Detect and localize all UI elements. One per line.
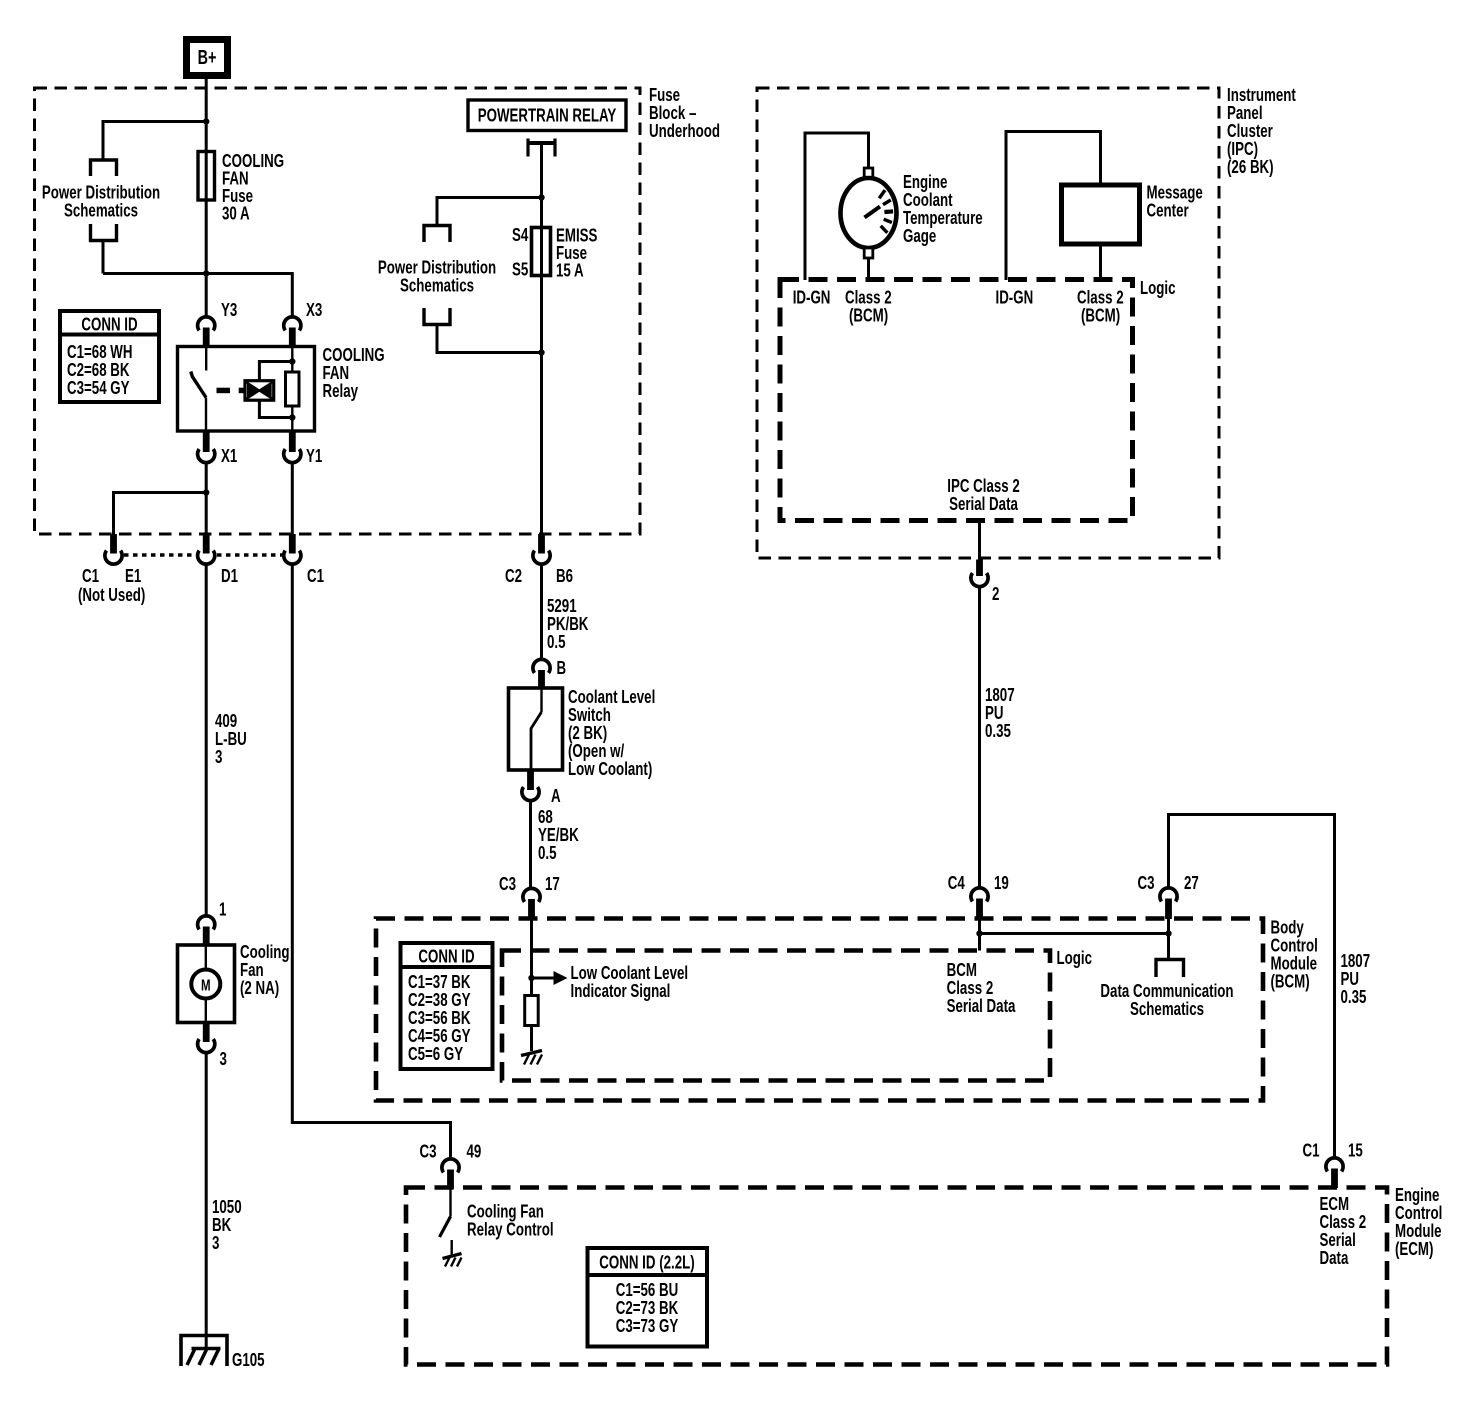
svg-text:15 A: 15 A [556, 260, 584, 281]
body control module enclosure [376, 919, 1263, 1101]
connector C1 15 [1303, 1140, 1363, 1188]
svg-text:A: A [551, 786, 561, 807]
wire coil top tap [259, 358, 295, 381]
connector D1 [198, 534, 238, 587]
gauge terminal top [864, 168, 873, 178]
connector A [522, 770, 561, 807]
EMISS fuse labels [512, 225, 598, 281]
cooling fan fuse label [222, 151, 284, 224]
wire power dist (right) to bus [437, 325, 545, 356]
svg-text:(BCM): (BCM) [1081, 305, 1120, 326]
gauge needle and ticks [865, 190, 894, 233]
wire coil bottom tap [259, 400, 295, 421]
connector 2 [971, 560, 1000, 605]
svg-text:B+: B+ [198, 46, 217, 69]
power distribution schematics reference (left) [42, 160, 160, 241]
wire low coolant signal [528, 919, 534, 996]
wire message center feed [1006, 132, 1101, 281]
IPC logic box [780, 280, 1133, 521]
svg-text:G105: G105 [232, 1350, 265, 1371]
wire 1807 PU from IPC [978, 587, 981, 888]
svg-text:Schematics: Schematics [1130, 999, 1204, 1020]
cooling fan relay control driver [440, 1189, 452, 1256]
wire B+ down to fuse [205, 79, 208, 152]
wire label 5291 PK/BK 0.5 [547, 596, 589, 653]
connector Y1 [284, 431, 323, 467]
wire gauge feed [805, 133, 869, 280]
svg-text:Logic: Logic [1140, 278, 1176, 299]
svg-text:(Not Used): (Not Used) [78, 585, 145, 606]
wire message center down [1099, 244, 1102, 280]
svg-text:C4: C4 [948, 873, 965, 894]
svg-text:C2: C2 [505, 566, 522, 587]
BCM class 2 serial data bus wire [980, 932, 1169, 935]
svg-text:(ECM): (ECM) [1395, 1239, 1433, 1260]
connector Y3 [198, 300, 238, 347]
EMISS fuse [532, 228, 551, 276]
svg-text:CONN ID: CONN ID [418, 946, 474, 967]
connector joint dotted line [124, 553, 282, 556]
svg-text:C3=73 GY: C3=73 GY [616, 1316, 679, 1337]
logic label (BCM) [1057, 948, 1093, 969]
ECM class 2 serial data label [1320, 1194, 1367, 1269]
svg-text:Gage: Gage [903, 226, 936, 247]
BCM label [1271, 917, 1318, 992]
logic label (IPC) [1140, 278, 1176, 299]
svg-text:CONN ID: CONN ID [81, 314, 137, 335]
message center box [1062, 185, 1140, 244]
svg-text:0.35: 0.35 [1341, 987, 1367, 1008]
coolant level switch label [568, 687, 655, 780]
cooling fan label [240, 942, 290, 999]
fuse block underhood enclosure [35, 88, 641, 534]
node ID-GN (gauge) [793, 287, 831, 308]
powertrain relay box [468, 100, 626, 131]
node Class 2 BCM (message center) [1077, 287, 1124, 326]
connector C3 17 [499, 874, 560, 919]
connector C2 B6 [505, 534, 573, 587]
fuse block label [649, 85, 720, 142]
connector C3 49 [420, 1141, 482, 1189]
BCM logic box [502, 951, 1050, 1081]
IPC class 2 serial data net label [947, 476, 1020, 515]
svg-text:Low Coolant): Low Coolant) [568, 759, 652, 780]
wire label 68 YE/BK 0.5 [538, 807, 579, 864]
connector X1 [198, 431, 238, 467]
svg-text:Y1: Y1 [306, 446, 322, 467]
svg-text:1: 1 [219, 899, 226, 920]
svg-text:X1: X1 [221, 446, 237, 467]
connector 3 [198, 1023, 227, 1070]
wire C3 27 down to data comm [1165, 919, 1171, 960]
svg-text:17: 17 [545, 874, 560, 895]
svg-text:Serial Data: Serial Data [947, 996, 1017, 1017]
coolant level switch [509, 688, 563, 770]
CONN ID table (cooling fan relay) [60, 311, 159, 402]
wire label 1807 PU 0.35 [985, 685, 1015, 742]
cooling fan relay K? box [178, 347, 315, 432]
svg-text:S5: S5 [512, 259, 528, 280]
svg-text:Y3: Y3 [221, 300, 237, 321]
engine coolant temperature gage [841, 178, 897, 248]
svg-text:CONN ID (2.2L): CONN ID (2.2L) [599, 1252, 694, 1273]
svg-text:Schematics: Schematics [400, 275, 474, 296]
svg-text:3: 3 [212, 1233, 219, 1254]
wire power dist bottom to bus [102, 241, 105, 274]
relay switch contact [205, 347, 207, 371]
svg-text:(BCM): (BCM) [1271, 971, 1310, 992]
engine control module enclosure [406, 1188, 1387, 1365]
wire bus above relay [103, 270, 292, 317]
relay switch blade [191, 372, 206, 432]
connector C1 E1 (not used) [78, 534, 145, 606]
cooling fan motor box [178, 945, 235, 1023]
data communication schematics reference [1100, 960, 1233, 1020]
svg-text:Center: Center [1147, 200, 1190, 221]
svg-text:3: 3 [215, 747, 222, 768]
svg-text:49: 49 [467, 1141, 482, 1162]
ground (ECM internal) [443, 1254, 462, 1267]
wire branch to power distribution (right) [437, 198, 542, 226]
wire D1 down to fan [205, 565, 208, 916]
svg-text:Data: Data [1320, 1248, 1350, 1269]
svg-text:3: 3 [220, 1049, 227, 1070]
CONN ID table (ECM 2.2L) [588, 1248, 708, 1347]
cooling fan fuse [198, 152, 215, 317]
svg-text:(2 NA): (2 NA) [240, 978, 279, 999]
svg-text:Logic: Logic [1057, 948, 1093, 969]
wire C3 27 up over to ECM [1169, 815, 1335, 1159]
power distribution schematics reference (right) [378, 226, 496, 325]
svg-text:0.35: 0.35 [985, 721, 1011, 742]
connector X3 [284, 300, 323, 347]
wire 68 YE/BK [529, 801, 532, 889]
svg-text:Relay: Relay [323, 381, 359, 402]
node ID-GN (message center) [996, 287, 1034, 308]
svg-text:B6: B6 [556, 566, 573, 587]
svg-text:19: 19 [994, 873, 1009, 894]
connector C4 19 [948, 873, 1009, 919]
svg-text:2: 2 [992, 584, 999, 605]
BCM pull-up resistor [525, 996, 539, 1026]
svg-text:C5=6 GY: C5=6 GY [408, 1044, 463, 1065]
svg-text:15: 15 [1348, 1140, 1363, 1161]
wire branch to power distribution schematics [103, 122, 206, 159]
svg-text:Relay Control: Relay Control [467, 1219, 554, 1240]
relay linkage dashes [217, 388, 246, 394]
connector 1 [198, 899, 227, 945]
svg-text:C3: C3 [1138, 873, 1155, 894]
svg-text:C3: C3 [499, 874, 516, 895]
node Class 2 BCM (gauge) [845, 287, 892, 326]
connector C3 27 [1138, 873, 1199, 919]
powertrain relay contact symbol [528, 139, 555, 157]
battery feed B+ symbol [187, 40, 228, 76]
svg-text:ID-GN: ID-GN [996, 287, 1034, 308]
wire resistor to ground [530, 1026, 533, 1052]
svg-text:M: M [201, 976, 211, 994]
gauge label [903, 172, 983, 247]
svg-text:27: 27 [1184, 873, 1199, 894]
junction node [538, 194, 544, 200]
wire branch to E1 [114, 489, 210, 534]
ground (BCM internal) [521, 1051, 542, 1065]
svg-text:30 A: 30 A [222, 203, 250, 224]
svg-text:C1: C1 [307, 566, 324, 587]
wire label 1807 PU 0.35 (right) [1341, 951, 1371, 1008]
svg-text:ID-GN: ID-GN [793, 287, 831, 308]
svg-text:0.5: 0.5 [538, 843, 557, 864]
svg-text:B: B [557, 658, 567, 679]
wire label 1050 BK 3 [212, 1197, 242, 1254]
cooling fan relay control label [467, 1201, 554, 1240]
relay label [323, 345, 385, 402]
wire 335 D-GN to ECM [292, 565, 450, 1159]
wire C4 into logic [976, 919, 982, 951]
svg-text:Schematics: Schematics [64, 200, 138, 221]
wire IPC serial data out [978, 521, 981, 560]
svg-text:E1: E1 [125, 566, 141, 587]
ECM label [1395, 1185, 1442, 1260]
svg-text:POWERTRAIN RELAY: POWERTRAIN RELAY [478, 105, 617, 126]
junction node at B+ branch [203, 118, 209, 124]
wire powertrain relay down [540, 143, 543, 534]
BCM class 2 serial data label [947, 960, 1017, 1017]
wire 1050 BK 3 [205, 1053, 208, 1349]
svg-text:C1: C1 [1303, 1140, 1320, 1161]
message center label [1147, 182, 1203, 221]
ground G105 [181, 1336, 265, 1371]
svg-text:Serial Data: Serial Data [949, 494, 1019, 515]
instrument panel cluster enclosure [757, 88, 1219, 558]
svg-text:D1: D1 [221, 566, 238, 587]
relay coil [245, 381, 274, 401]
svg-text:C1: C1 [82, 566, 99, 587]
svg-text:C3=54 GY: C3=54 GY [67, 378, 130, 399]
wire X1 down to D1 [205, 463, 208, 534]
connector B [533, 658, 566, 688]
svg-text:Indicator Signal: Indicator Signal [571, 981, 671, 1002]
wire label 409 L-BU 3 [215, 711, 247, 768]
svg-text:(BCM): (BCM) [849, 305, 888, 326]
wire Y1 down to C1 [291, 463, 294, 534]
CONN ID table (BCM) [401, 943, 493, 1069]
svg-text:0.5: 0.5 [547, 632, 566, 653]
wire C2 to B [540, 565, 543, 660]
connector C1 (relay control) [284, 534, 324, 587]
svg-text:Underhood: Underhood [649, 121, 720, 142]
svg-text:(26 BK): (26 BK) [1227, 157, 1274, 178]
svg-text:X3: X3 [306, 300, 322, 321]
gauge terminal bottom [864, 248, 873, 280]
relay resistor [286, 347, 300, 431]
low coolant level indicator signal arrow [532, 963, 689, 1002]
IPC label [1227, 85, 1296, 178]
svg-text:S4: S4 [512, 225, 528, 246]
svg-text:C3: C3 [420, 1141, 437, 1162]
